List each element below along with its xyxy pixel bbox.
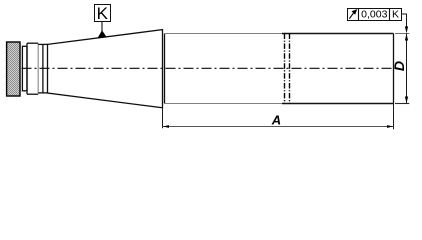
threaded stud (hatched) (7, 42, 20, 96)
break chain line 2 (289, 34, 291, 104)
D dim top arrow (405, 34, 408, 41)
cylinder top edge (gray left part) (165, 33, 283, 35)
taper cone (48, 30, 163, 108)
runout symbol head (352, 9, 358, 15)
cylinder bottom edge (gray left part) (165, 103, 283, 105)
FCF leader (401, 14, 406, 28)
D dim top extension line (395, 33, 409, 35)
FCF divider 2 (389, 9, 391, 21)
break chain line 1 (284, 34, 286, 104)
datum triangle (97, 30, 106, 38)
D dim bottom arrow (405, 97, 408, 104)
A dimension line (163, 126, 394, 128)
runout symbol shaft (349, 13, 353, 19)
FCF divider 1 (358, 9, 360, 21)
A dim right arrow (387, 125, 393, 128)
A dim left arrow (163, 125, 169, 128)
datum stem (101, 22, 103, 31)
feature control frame outer box (348, 9, 402, 21)
svg-text:K: K (97, 4, 109, 23)
svg-text:A: A (271, 112, 281, 127)
svg-text:D: D (391, 61, 407, 71)
cylindrical land top edge (38, 43, 47, 45)
FCF leader arrow (405, 26, 408, 33)
cylinder right end face (393, 34, 395, 104)
cylinder left face (164, 34, 166, 104)
neck ring 2 top edge (27, 42, 38, 44)
D dimension line (406, 34, 408, 104)
land groove line (42, 44, 44, 93)
cylindrical land bottom edge (38, 92, 47, 94)
A dim left extension line (162, 108, 164, 128)
cylinder top edge (black right part) (282, 33, 394, 35)
svg-text:0,003: 0,003 (361, 9, 387, 21)
neck ring 2 bottom edge (27, 93, 38, 95)
D dim bottom extension line (395, 103, 409, 105)
centerline (22, 67, 393, 69)
cylinder bottom edge (black right part) (282, 103, 394, 105)
datum K box (95, 5, 111, 22)
A dim right extension line (393, 104, 395, 130)
cylinder body fill (165, 34, 394, 104)
neck ring 1 (22, 46, 27, 91)
neck ring 2 left face (26, 43, 28, 94)
svg-text:K: K (392, 9, 399, 21)
gray divider at ring 2 right face (37, 44, 39, 94)
